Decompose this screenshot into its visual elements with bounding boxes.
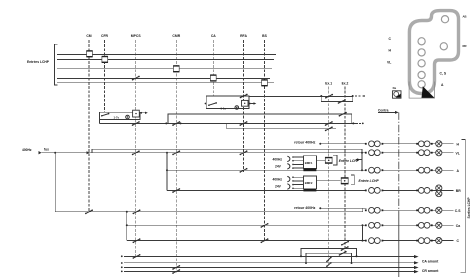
contact MPCS on feed (132, 150, 140, 155)
wire CMR vertical dashed (175, 40, 177, 273)
relay box A (CFR/MPCS) (100, 112, 141, 119)
wire CFR vertical dashed (104, 40, 106, 112)
arrow bottom line 3 (414, 266, 419, 269)
contact MPCS on bus line 4 (132, 76, 140, 81)
node box A output (140, 112, 142, 114)
row H wire (383, 143, 454, 145)
contact inside box B (208, 102, 217, 106)
svg-text:24V: 24V (275, 185, 282, 189)
lamp CS (436, 207, 442, 213)
contact CMR on bottom line 4 (172, 269, 180, 274)
timer symbol box A (126, 115, 130, 119)
wire RFA vertical dashed (243, 40, 245, 172)
contact inside box A (101, 113, 109, 117)
svg-text:AB: AB (463, 14, 467, 18)
svg-text:MPCS: MPCS (131, 34, 142, 38)
fuse CMR (173, 66, 179, 72)
svg-text:400Hz: 400Hz (273, 157, 283, 161)
node Ex1 left (320, 95, 322, 97)
contact Ex.2 on loop 1 (341, 246, 349, 251)
gate position C (418, 38, 425, 45)
wire VL-A link x362 (361, 153, 363, 171)
wire loop below y96 with Ex.2 contact (321, 96, 352, 101)
connector pair VL right (416, 150, 432, 156)
supply arrow (39, 151, 42, 154)
connector pair C left (365, 238, 383, 244)
contact Ex.2 on wire y114 (339, 112, 347, 117)
wire Ex.1 vertical dashed (328, 87, 330, 267)
fuse BS (261, 80, 267, 86)
wire upper feed y149.2 (92, 149, 362, 153)
svg-text:BS: BS (262, 34, 267, 38)
connector pair BR right (416, 188, 432, 194)
contact CMR on bottom line 3 (172, 265, 180, 270)
bus line 3 (57, 68, 272, 70)
BMF1 output to plug (316, 159, 325, 161)
lamp C (436, 238, 442, 244)
row VL wire (383, 152, 454, 154)
contact Ex.1 on wire y96 (325, 94, 333, 99)
contact CMR on feed (172, 150, 180, 155)
lamp VL (436, 150, 442, 156)
BMF2 input lines (292, 176, 303, 189)
gate position A (418, 81, 425, 88)
svg-text:400Hz: 400Hz (273, 178, 283, 182)
connector pair A right (416, 167, 432, 173)
svg-text:CM: CM (86, 34, 91, 38)
wire y123.4 main (100, 122, 358, 124)
node feed x167 (166, 152, 168, 154)
lamp H (436, 141, 442, 147)
node x126.8 Ca (126, 224, 128, 226)
wire A row feed (167, 169, 367, 171)
row A wire (383, 169, 454, 171)
gate position RR (440, 43, 447, 50)
svg-text:CA: CA (211, 34, 216, 38)
row C wire (383, 240, 454, 242)
coil Q-B (242, 100, 249, 106)
lever handle triangle (422, 86, 435, 98)
connector pair BR left (365, 188, 383, 194)
wire Ca row feed (127, 224, 367, 226)
svg-text:De: De (393, 86, 397, 90)
contact MPCS on C feed (133, 238, 141, 243)
connector pair H left (365, 141, 383, 147)
wire y123.4 dashed tail (356, 122, 362, 124)
node y123.4 a (165, 122, 167, 124)
gate position VL (418, 60, 425, 67)
fuse CA (210, 75, 216, 81)
connector pair Ca right (416, 222, 432, 228)
svg-text:VL: VL (456, 151, 460, 155)
bus line 2 (57, 59, 274, 61)
contact Ex.2 on C feed (341, 241, 349, 246)
lever base box (409, 82, 434, 99)
BMF2 output to plug (316, 180, 340, 182)
svg-text:C.S: C.S (455, 209, 461, 213)
svg-text:BR: BR (456, 189, 461, 193)
svg-text:0-1s: 0-1s (221, 106, 227, 110)
node feed split (54, 152, 56, 154)
contact CM on CS feed (85, 209, 93, 214)
svg-text:RFA: RFA (240, 34, 247, 38)
svg-text:Entrées LCHP: Entrées LCHP (27, 60, 50, 64)
coil Q-A (133, 110, 140, 117)
contact CMR on BR feed (172, 188, 180, 193)
connector pair CS right (416, 207, 432, 213)
contact Ex.1 lines1-2 (326, 257, 332, 263)
BMF1 box (303, 156, 316, 169)
svg-text:Sorties LCHP: Sorties LCHP (467, 197, 471, 219)
gate position H (418, 49, 425, 56)
gate position C,S (418, 71, 425, 78)
node Ex2 right (352, 95, 354, 97)
wire Ex.2 vertical dashed (344, 87, 346, 254)
wire Ca-C link x362.5 (362, 225, 364, 240)
contact BS on C feed (261, 238, 269, 243)
bus line 1 (57, 53, 276, 55)
wire y96 dashed continuation (355, 95, 363, 97)
node box B input (205, 103, 207, 105)
contact CM junction on feed (87, 151, 90, 154)
svg-text:Ex.1: Ex.1 (325, 82, 332, 86)
row Ca wire (383, 224, 454, 226)
lamp BR lower (436, 191, 442, 197)
wire BS vertical dashed (264, 40, 266, 242)
node y123.4 right (352, 122, 354, 124)
svg-text:CA amont: CA amont (422, 259, 439, 263)
wire CA vertical dashed (212, 40, 214, 96)
contact Ex.1 on wire y128.7 (325, 126, 333, 131)
detector box (393, 91, 402, 98)
contact CMR on wire y123.4 (172, 121, 180, 126)
svg-text:RR: RR (463, 44, 467, 48)
node box B output (249, 103, 251, 105)
contact RFA on wire y123.4 (240, 121, 248, 126)
bracket Sorties LCHP (461, 140, 466, 273)
svg-text:Ex.2: Ex.2 (342, 82, 349, 86)
wire drop x126.8 (126, 212, 128, 241)
lamp A (436, 167, 442, 173)
svg-text:CR amont: CR amont (422, 269, 439, 273)
contact Ex.2 on loop 2 (339, 251, 347, 256)
bus line 4 (57, 77, 270, 79)
wire Ex feeder y96 (249, 95, 353, 97)
wire CM vertical dashed (88, 40, 90, 211)
node y123.4 b (180, 122, 182, 124)
bottom bus line 4 (121, 271, 123, 273)
gate position AB (441, 16, 448, 23)
wire box A output arrow (141, 112, 145, 114)
wire retour stub arrow (358, 159, 362, 161)
connector pair A left (365, 167, 383, 173)
svg-text:Entrée LCHP: Entrée LCHP (359, 179, 380, 183)
arrow bottom line 4 (414, 270, 419, 273)
arrow bottom line 1 (414, 255, 419, 258)
contact BS on Ca feed (261, 223, 269, 228)
wire drop x167 (166, 153, 168, 191)
wire loop 1 over bottom lines (301, 248, 357, 256)
connector pair C right (416, 238, 432, 244)
wire MPCS vertical dashed (135, 40, 137, 257)
contact MPCS on CS feed (133, 209, 141, 214)
row CS wire (383, 209, 454, 211)
svg-text:Ca: Ca (456, 224, 460, 228)
wire y128.7 branch (227, 123, 336, 128)
svg-text:retour 400Hz: retour 400Hz (294, 206, 315, 210)
wire box A drop (99, 120, 101, 124)
contact RFA on A feed (240, 168, 248, 173)
row BR wire (383, 189, 454, 191)
svg-text:24V: 24V (275, 165, 282, 169)
lamp BR upper (436, 185, 442, 191)
bus line 5 (57, 82, 274, 84)
wire loop 2 over bottom lines (306, 253, 352, 263)
wire 400Hz feed y152.7 (42, 152, 367, 154)
svg-text:400Hz: 400Hz (22, 148, 32, 152)
wire C row feed (127, 240, 367, 242)
contact RFA on box B top edge (240, 94, 248, 99)
connector pair VL left (365, 150, 383, 156)
contact RFA on feed (240, 150, 248, 155)
connector pair Ca left (365, 222, 383, 228)
BMF1 input lines (292, 156, 303, 169)
wire bridge y114 (168, 114, 352, 123)
wire drop x55.2 to CS feed (55, 153, 363, 212)
plug Entree LCHP 2 (341, 178, 349, 184)
wire H row feed (320, 143, 366, 145)
svg-text:VL: VL (387, 61, 391, 65)
wire Centra arrow (378, 111, 395, 113)
wire box B output arrow (250, 103, 254, 105)
svg-text:CMR: CMR (172, 34, 180, 38)
bottom bus line 1 (121, 255, 123, 257)
svg-text:BMF1: BMF1 (305, 161, 313, 165)
svg-text:CFR: CFR (101, 34, 109, 38)
bottom bus line 2 (121, 262, 123, 264)
contact MPCS on wire y123.4 (132, 121, 140, 126)
fuse CM (86, 51, 92, 57)
timer symbol box B (235, 106, 239, 110)
fuse CFR (102, 56, 108, 62)
wire BR row feed (167, 189, 367, 191)
BMF2 box (303, 176, 316, 189)
wire stub to upper feed (91, 149, 93, 153)
svg-text:Entrée LCHP: Entrée LCHP (339, 159, 360, 163)
plug Entree LCHP 1 (325, 157, 332, 163)
contact Ex.1 lines2-3 (326, 262, 332, 267)
arrow bottom line 2 (414, 261, 419, 264)
svg-text:fus: fus (44, 147, 49, 151)
relay box B (CA/RFA) (206, 96, 249, 109)
wire Centra vertical dash-dot (398, 112, 400, 212)
svg-text:BMF2: BMF2 (305, 181, 313, 185)
node x167 A (166, 169, 168, 171)
lamp Ca (436, 222, 442, 228)
connector pair H right (416, 141, 432, 147)
contact Ex.1 on wire y123.4 (325, 121, 333, 126)
svg-text:1-7s: 1-7s (114, 115, 120, 119)
connector pair CS left (365, 207, 383, 213)
contact MPCS on bottom line 1 (133, 254, 141, 259)
svg-text:C, S: C, S (440, 72, 447, 76)
svg-text:retour 400Hz: retour 400Hz (294, 140, 315, 144)
node x126.8 top (126, 211, 128, 213)
bottom bus line 3 (121, 266, 123, 268)
lever gate outline (409, 11, 458, 94)
